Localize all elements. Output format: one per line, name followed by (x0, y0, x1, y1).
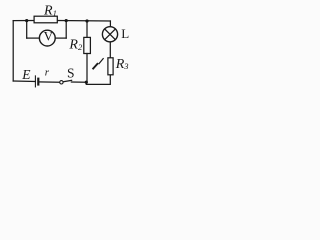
lamp L cross stroke 1 (105, 29, 116, 40)
switch S blade (63, 80, 71, 81)
wire V-branch right vertical (65, 21, 67, 38)
lamp L cross stroke 2 (105, 29, 116, 40)
wire R2 top vertical (86, 21, 88, 37)
node A (R1/V left junction dot) (25, 19, 28, 22)
node B (R1/V right junction dot) (65, 19, 68, 22)
voltmeter V circle (39, 30, 55, 46)
rheostat R3 arrow lower stroke (93, 64, 97, 69)
wire V-branch right horizontal (55, 37, 66, 39)
wire bottom (switch blade to junction) (71, 81, 86, 83)
svg-text:R2: R2 (68, 38, 83, 53)
wire V-branch left horizontal (27, 37, 40, 39)
rheostat R3 arrow upper stroke (99, 59, 103, 64)
wire bottom (corner to battery) (13, 80, 35, 83)
node D (R2/S bottom junction dot) (85, 81, 88, 84)
wire bottom right (junction to R3 corner) (86, 75, 110, 85)
rheostat R3 box (108, 58, 113, 75)
wire R2 bottom vertical (86, 54, 88, 83)
node C (R2 top junction dot) (85, 19, 88, 22)
battery E long plate (34, 76, 36, 87)
wire V-branch left vertical (26, 21, 28, 38)
svg-text:r: r (45, 67, 50, 79)
svg-text:R1: R1 (43, 4, 57, 19)
svg-text:S: S (67, 66, 75, 81)
wire lamp to R3 vertical (109, 42, 111, 58)
lamp L circle (102, 27, 117, 42)
svg-text:V: V (44, 29, 54, 44)
svg-text:E: E (21, 67, 31, 82)
resistor R1 (34, 16, 57, 23)
wire bottom (battery to switch) (38, 81, 59, 83)
wire left edge (12, 21, 14, 81)
svg-text:L: L (121, 26, 129, 41)
wire top (left segment to R1) (13, 20, 34, 22)
wire lamp top vertical (109, 21, 111, 27)
switch S pivot circle (60, 81, 63, 84)
resistor R2 (84, 37, 91, 53)
svg-text:R3: R3 (115, 57, 129, 72)
battery E short thick plate (37, 79, 39, 85)
wire top (R1 to lamp corner) (57, 20, 110, 23)
